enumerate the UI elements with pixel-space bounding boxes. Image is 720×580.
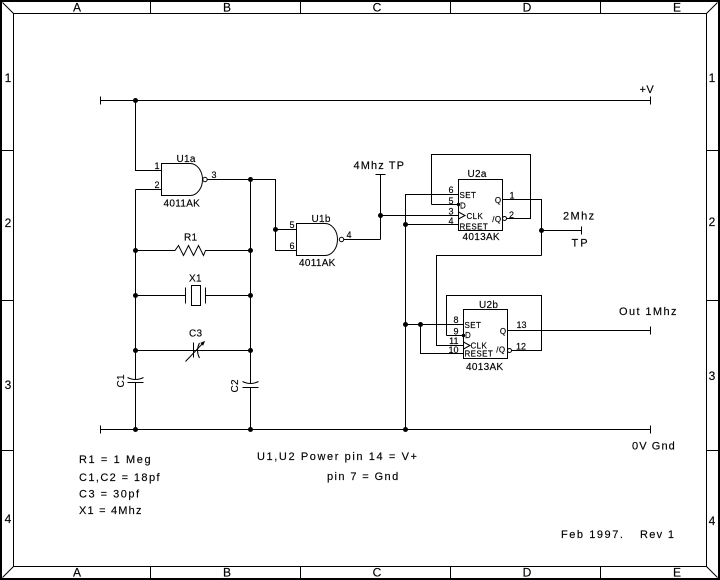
node ground C1 junction [133,427,138,432]
svg-text:13: 13 [517,320,527,330]
wire U2b SET feed [406,324,464,326]
svg-text:R1 = 1 Meg: R1 = 1 Meg [79,454,152,466]
node C3 left junction [133,348,138,353]
nand gate U1b [297,224,344,256]
svg-text:4: 4 [5,512,12,526]
resistor R1 [136,246,251,256]
wire U1a pin 2 stub [136,189,162,191]
wire U1b pin 5 stub [276,229,297,231]
wire U2a D stub [432,204,459,206]
wire U1a output to node A [207,179,250,181]
svg-text:SET: SET [465,321,482,330]
svg-text:D: D [460,202,466,211]
node 2Mhz junction [539,228,544,233]
wire left column pin2 to C1 [135,190,137,380]
svg-text:4: 4 [709,514,716,528]
svg-text:SET: SET [460,191,477,200]
svg-text:1: 1 [709,71,716,85]
svg-text:D: D [523,566,532,580]
node R1 right junction [248,248,253,253]
wire U2b feedback loop /Q to D [447,296,542,351]
svg-text:3: 3 [212,170,217,180]
svg-text:U1,U2 Power pin 14 = V+: U1,U2 Power pin 14 = V+ [257,451,419,463]
wire 4Mhz TP riser [376,175,386,240]
svg-text:C3 = 30pf: C3 = 30pf [79,489,141,501]
wire U2a Q to U2b CLK [437,256,542,346]
wire C2 to ground [250,388,252,430]
svg-text:3: 3 [448,207,453,217]
svg-text:pin 7 = Gnd: pin 7 = Gnd [327,471,400,483]
svg-text:4011AK: 4011AK [164,199,201,210]
node +V tap junction [133,98,138,103]
svg-text:RESET: RESET [465,350,494,359]
crystal X1 [136,286,251,306]
node R1 left junction [133,248,138,253]
wire U2b Q output to Out 1Mhz [508,327,651,335]
flip-flop U2b [464,310,508,359]
svg-text:2Mhz: 2Mhz [563,211,596,223]
wire U2a SET feed [406,195,459,430]
svg-text:C: C [373,1,382,15]
wire U2a RESET feed [406,224,459,226]
wire 2Mhz test point [542,227,582,235]
wire U2a feedback loop /Q to D [432,155,531,219]
U2b D input dot [462,334,465,337]
flip-flop U2a [459,180,503,231]
wire 4Mhz node to U2a CLK [381,215,459,217]
svg-text:U1b: U1b [312,214,331,225]
wire U1b pin5 to pin6 [276,230,297,251]
svg-text:4: 4 [448,216,453,226]
node ground C2 junction [248,427,253,432]
svg-text:6: 6 [289,241,294,251]
svg-text:A: A [73,1,81,15]
svg-text:R1: R1 [184,233,198,244]
node U2b SET tap junction [403,322,408,327]
svg-text:4013AK: 4013AK [466,362,503,373]
svg-text:4: 4 [347,230,352,240]
svg-text:X1 = 4Mhz: X1 = 4Mhz [79,505,143,517]
svg-text:CLK: CLK [467,212,484,221]
svg-text:C1: C1 [116,374,127,388]
node U1b input junction [273,227,278,232]
svg-text:TP: TP [572,238,590,250]
svg-text:B: B [223,566,231,580]
U2a D input dot [457,203,460,206]
svg-text:RESET: RESET [460,223,489,232]
svg-text:3: 3 [709,369,716,383]
svg-text:A: A [73,566,81,580]
svg-text:+V: +V [640,84,655,96]
svg-text:0V Gnd: 0V Gnd [632,441,676,453]
svg-text:2: 2 [154,180,159,190]
svg-text:Q: Q [500,327,507,336]
svg-text:C2: C2 [230,379,241,393]
node 4Mhz junction [378,213,383,218]
node ground U2 rail junction [403,427,408,432]
node U2b RESET tap junction [418,322,423,327]
svg-text:X1: X1 [189,274,202,285]
wire U2a Q output [503,200,542,256]
node U2a RESET tap junction [403,222,408,227]
svg-text:B: B [223,1,231,15]
wire +V to U1a pin 1 [136,101,162,171]
U2b /Q output bubble [508,349,512,353]
svg-text:5: 5 [289,220,294,230]
svg-text:10: 10 [448,345,458,355]
nand gate U1a [162,164,208,196]
U2a /Q output bubble [503,217,507,221]
node X1 right junction [248,293,253,298]
svg-text:1: 1 [154,161,159,171]
svg-text:C3: C3 [189,329,203,340]
svg-text:2: 2 [709,215,716,229]
wire right column U1a out to C2 [250,180,252,384]
wire node A to U1b inputs [251,180,276,230]
svg-text:/Q: /Q [492,215,501,224]
svg-text:Rev 1: Rev 1 [640,529,675,541]
node X1 left junction [133,293,138,298]
svg-text:Feb 1997.: Feb 1997. [561,529,625,541]
svg-text:E: E [673,1,681,15]
svg-text:4011AK: 4011AK [299,258,336,269]
svg-text:D: D [523,1,532,15]
svg-text:2: 2 [5,216,12,230]
node A junction (U1a out) [248,177,253,182]
wire U1b output [344,239,381,241]
U2b clock wedge [464,342,471,349]
node C3 right junction [248,348,253,353]
svg-text:4013AK: 4013AK [463,232,500,243]
capacitor C1 [128,378,144,383]
svg-text:6: 6 [448,185,453,195]
svg-text:C1,C2 = 18pf: C1,C2 = 18pf [79,472,161,484]
svg-text:E: E [673,566,681,580]
svg-text:C: C [373,566,382,580]
svg-text:U2b: U2b [479,300,498,311]
U2a clock wedge [459,212,466,219]
svg-text:U1a: U1a [177,154,196,165]
svg-text:1: 1 [5,71,12,85]
capacitor C2 [243,382,259,388]
+V power rail [101,97,651,105]
svg-text:3: 3 [5,378,12,392]
svg-text:U2a: U2a [468,169,487,180]
variable capacitor C3 [136,341,251,362]
svg-text:D: D [465,331,471,340]
svg-text:Out 1Mhz: Out 1Mhz [619,306,678,318]
wire U2b RESET feed [421,325,464,354]
svg-text:Q: Q [495,196,502,205]
svg-text:4Mhz TP: 4Mhz TP [354,160,406,172]
wire C1 to ground [135,383,137,430]
ground rail 0V [101,426,651,434]
wire U2b D stub [447,335,464,337]
svg-text:/Q: /Q [496,346,505,355]
svg-text:8: 8 [453,315,458,325]
